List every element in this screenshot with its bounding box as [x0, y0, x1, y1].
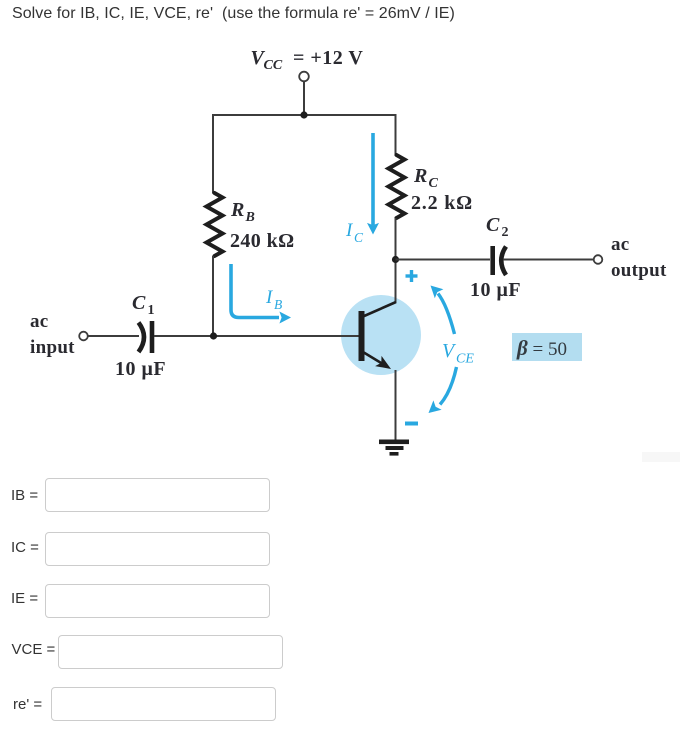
- label RC: [413, 165, 439, 191]
- current arrow IB: [231, 264, 291, 324]
- svg-text:= +12 V: = +12 V: [293, 47, 363, 69]
- VCC terminal: [299, 72, 309, 82]
- svg-text:input: input: [30, 337, 75, 358]
- svg-text:R: R: [413, 165, 427, 187]
- svg-text:10 μF: 10 μF: [470, 279, 521, 301]
- svg-text:240 kΩ: 240 kΩ: [230, 230, 295, 252]
- svg-text:C: C: [132, 292, 146, 314]
- label VCC = +12 V: [251, 47, 364, 73]
- transistor Q1 collector lead: [363, 302, 396, 317]
- beta = 50 highlight box: [512, 333, 582, 361]
- scrollbar fragment: [642, 452, 680, 462]
- label ac output: [611, 234, 667, 281]
- wire C1 to base: [154, 335, 359, 337]
- capacitor C1: [139, 321, 153, 353]
- answer field VCE: [12, 641, 56, 658]
- svg-text:B: B: [245, 210, 255, 225]
- answer field IC: [11, 539, 39, 556]
- wire input to C1: [88, 335, 139, 337]
- svg-text:I: I: [345, 220, 354, 241]
- svg-text:C: C: [429, 176, 439, 191]
- svg-text:ac: ac: [611, 234, 630, 255]
- svg-text:2.2 kΩ: 2.2 kΩ: [411, 192, 473, 214]
- transistor Q1 highlight circle: [341, 295, 421, 375]
- answer field re': [13, 696, 42, 713]
- label VCE: [442, 340, 474, 367]
- voltage arrow VCE (bottom arc): [429, 367, 457, 413]
- wire top rail: [213, 114, 396, 116]
- ground: [379, 440, 409, 456]
- transistor Q1 emitter lead with arrow: [363, 352, 391, 369]
- transistor Q1 base bar: [359, 311, 365, 361]
- output terminal: [594, 255, 603, 264]
- input terminal: [79, 332, 88, 341]
- voltage arrow VCE (top arc): [431, 286, 455, 335]
- svg-text:R: R: [230, 199, 244, 221]
- svg-text:I: I: [265, 287, 274, 308]
- wire emitter down: [395, 370, 397, 440]
- node junction RB/base wire: [210, 332, 217, 339]
- polarity minus: [405, 422, 418, 426]
- svg-text:V: V: [442, 340, 457, 362]
- label IB: [265, 287, 282, 312]
- wire right branch upper: [395, 114, 397, 156]
- label ac input: [30, 311, 75, 358]
- svg-text:output: output: [611, 260, 667, 281]
- svg-text:CC: CC: [264, 58, 283, 73]
- wire C2 to output: [503, 259, 594, 261]
- svg-text:2: 2: [502, 225, 509, 240]
- capacitor C2: [493, 246, 506, 275]
- wire right branch lower (collector): [395, 218, 397, 303]
- wire left branch lower: [212, 256, 214, 336]
- svg-text:C: C: [486, 214, 500, 236]
- svg-text:C: C: [354, 230, 364, 245]
- svg-text:β = 50: β = 50: [516, 336, 567, 360]
- svg-text:1: 1: [148, 303, 155, 318]
- svg-text:B: B: [274, 297, 282, 312]
- svg-text:ac: ac: [30, 311, 49, 332]
- label IC: [345, 220, 364, 245]
- label C2: [486, 214, 509, 240]
- label RB: [230, 199, 255, 225]
- resistor RB: [207, 193, 223, 256]
- resistor RC: [389, 155, 405, 218]
- node junction collector/C2: [392, 256, 399, 263]
- wire VCC stub: [303, 82, 305, 116]
- svg-text:CE: CE: [456, 352, 474, 367]
- label C1: [132, 292, 155, 318]
- svg-text:10 μF: 10 μF: [115, 358, 166, 380]
- polarity plus: [406, 270, 418, 282]
- answer field IB: [11, 487, 38, 504]
- answer field IE: [11, 590, 38, 607]
- current arrow IC: [367, 133, 379, 235]
- wire collector node to C2: [396, 259, 491, 261]
- node junction VCC/top rail: [300, 111, 307, 118]
- wire left branch upper: [212, 114, 214, 194]
